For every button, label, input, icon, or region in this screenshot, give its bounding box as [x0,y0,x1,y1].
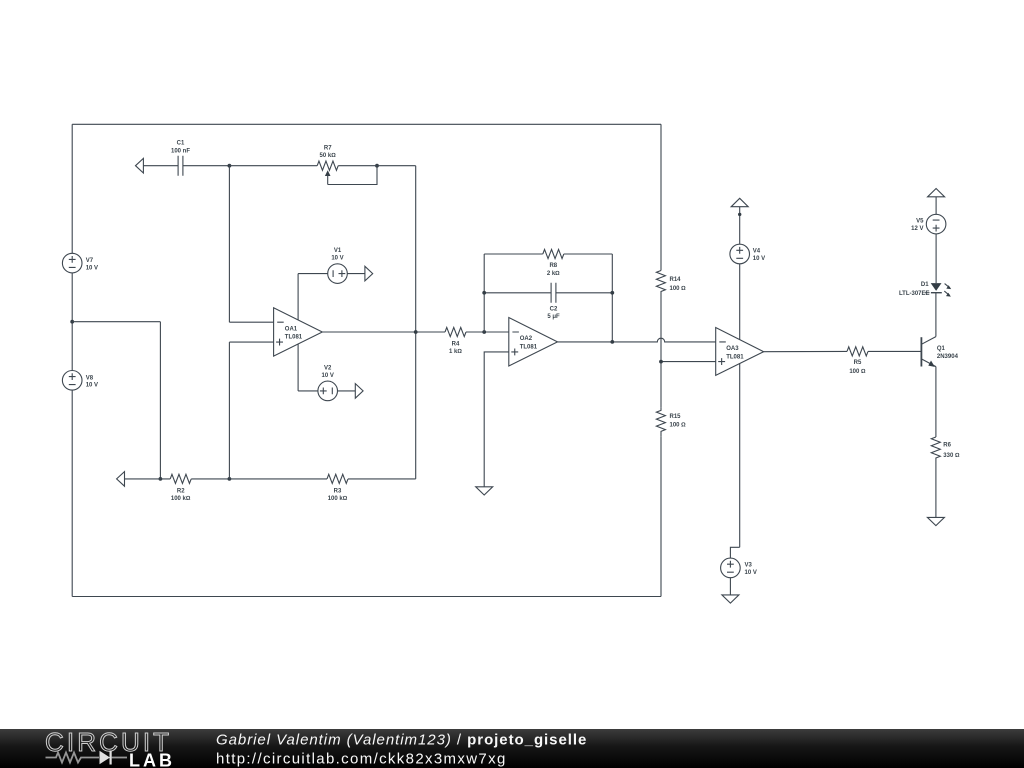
resistor R2 [170,474,191,483]
voltage source V8 [62,371,82,391]
wire non-inverting column to R2/R3 node [228,342,230,479]
voltage source V3 [721,558,741,578]
node junction R2/R3 [228,477,232,481]
svg-text:100 Ω: 100 Ω [849,369,866,375]
power symbol (V4) [731,198,748,206]
resistor R15 [656,408,665,436]
wire R3 to feedback column [348,478,416,480]
node junction OA1 output/feedback [414,330,418,334]
wire R7 to feedback corner [338,165,416,167]
wire OA1 output [322,331,445,333]
node junction C1/R7/inverting [228,164,232,168]
wire C2 left lead [484,292,551,294]
potentiometer R7 [317,161,338,170]
wire V4 to power [739,207,741,245]
svg-text:V1: V1 [334,248,342,254]
svg-text:V5: V5 [916,218,924,224]
wire V5 to power [935,197,937,215]
wire to V2 [298,390,318,392]
R7 wiper arrow [325,170,331,176]
svg-text:R15: R15 [670,414,682,420]
wire OA1 V- pin [297,344,299,391]
node dot below power V4 [738,213,741,216]
wire C1 to node [183,165,230,167]
node junction C2 left [482,291,486,295]
wire OA1 V+ pin [297,274,299,320]
wire R4 to OA2 inverting input [466,331,509,333]
svg-text:R14: R14 [670,277,682,283]
svg-text:TL081: TL081 [726,354,744,360]
svg-text:C2: C2 [550,306,558,312]
wire V3 to ground [729,578,731,595]
wire R8 to right column [564,253,613,255]
svg-text:V4: V4 [753,248,761,254]
wire junction to V7 [71,273,73,322]
svg-text:V7: V7 [86,258,94,264]
node junction R7 wiper [375,164,379,168]
svg-text:R8: R8 [549,263,557,269]
svg-text:V8: V8 [86,375,94,381]
wire inverting column upper [228,166,230,323]
svg-text:100 Ω: 100 Ω [670,286,687,292]
terminal arrow left (R2 row) [117,472,125,487]
wire arrow to R2 [125,478,171,480]
wire R7 wiper loop [328,166,377,185]
svg-text:Gabriel Valentim (Valentim123): Gabriel Valentim (Valentim123) / projeto… [216,731,587,748]
svg-text:R4: R4 [452,342,460,348]
svg-text:100 Ω: 100 Ω [670,422,687,428]
ground (V3) [722,595,739,603]
wire Q1 collector up [935,293,937,337]
resistor R3 [327,474,348,483]
ground (R6) [927,517,944,525]
svg-text:OA2: OA2 [520,336,533,342]
wire V1 to terminal [347,273,365,275]
svg-text:10 V: 10 V [86,266,98,272]
wire R6 to ground [935,461,937,517]
voltage source V1 [328,264,348,284]
wire to V1 [298,273,328,275]
wire to OA1 non-inverting input [229,341,273,343]
LED D1 [931,283,942,291]
svg-text:R6: R6 [943,442,951,448]
wire branch down to R2 [159,322,161,479]
svg-text:100 nF: 100 nF [171,149,190,155]
op-amp OA3 [716,328,764,376]
wire OA3 V+ pin to V4 [739,264,741,340]
svg-text:10 V: 10 V [86,383,98,389]
svg-text:5 μF: 5 μF [547,314,560,320]
svg-text:OA3: OA3 [726,346,739,352]
op-amp OA1 [274,308,323,356]
capacitor C1 [178,156,183,176]
svg-text:R7: R7 [324,146,332,152]
op-amp OA2 [509,318,558,367]
wire to OA3 non-inverting input [661,361,716,363]
wire R2 to node [191,478,229,480]
node junction V7/V8 [70,320,74,324]
voltage source V4 [730,244,750,264]
ground (OA2 non-inverting) [476,487,493,495]
wire feedback column vertical [415,166,417,479]
resistor R14 [656,271,665,295]
resistor R5 [847,347,868,356]
node junction R2 left [159,477,163,481]
logo resistor squiggle [46,753,100,763]
node junction OA2 output [610,340,614,344]
svg-text:OA1: OA1 [285,326,298,332]
svg-text:10 V: 10 V [331,256,343,262]
wire OA2 feedback left column [483,254,485,332]
wire C2 right lead [556,292,612,294]
wire OA2 non-inverting to ground [484,352,509,487]
svg-text:100 kΩ: 100 kΩ [328,496,348,502]
svg-text:http://circuitlab.com/ckk82x3m: http://circuitlab.com/ckk82x3mxw7xg [216,750,507,767]
wire D1 to V5 [935,234,937,283]
wire V7 to top rail [71,124,73,253]
FOOTER [0,727,1024,768]
wire outer left column below V8 [71,390,73,596]
node junction R14/R15/OA3 [659,360,663,364]
svg-text:10 V: 10 V [745,570,757,576]
svg-text:LTL-307EE: LTL-307EE [899,291,930,297]
wire V2 to terminal [338,390,356,392]
svg-text:1 kΩ: 1 kΩ [449,349,462,355]
voltage source V7 [62,253,82,273]
svg-text:R5: R5 [854,360,862,366]
capacitor C2 [551,283,556,303]
svg-text:100 kΩ: 100 kΩ [171,496,191,502]
svg-text:2 kΩ: 2 kΩ [547,271,560,277]
svg-text:10 V: 10 V [753,256,765,262]
wire outer bottom rail [72,596,661,598]
wire Q1 emitter down [935,367,937,437]
terminal arrow left (C1 row) [136,158,144,173]
svg-text:D1: D1 [921,282,929,288]
svg-text:Q1: Q1 [937,346,946,352]
wire right column middle [660,295,662,408]
wire jog to V3 [730,547,739,558]
wire R5 to Q1 base [868,350,921,352]
svg-text:2N3904: 2N3904 [937,354,959,360]
wire outer top rail [72,123,661,125]
node junction C2 right [610,291,614,295]
wire right column lower [660,436,662,596]
wire right column upper (to R14) [660,124,662,270]
svg-text:TL081: TL081 [285,335,303,341]
logo diode [100,751,111,764]
voltage source V5 [926,214,946,234]
wire node to R3 [229,478,327,480]
wire node to R7 [229,165,317,167]
wire to R8 [484,253,543,255]
terminal arrow right (V2) [355,384,363,399]
svg-text:10 V: 10 V [322,373,334,379]
resistor R8 [543,249,564,258]
node junction OA2 feedback [482,330,486,334]
resistor R6 [931,437,940,461]
wire to OA1 inverting input [229,321,273,323]
svg-text:330 Ω: 330 Ω [943,453,960,459]
svg-text:C1: C1 [177,141,185,147]
svg-text:50 kΩ: 50 kΩ [320,153,337,159]
svg-text:R2: R2 [177,488,185,494]
svg-text:V3: V3 [745,563,753,569]
wire arrow to C1 [143,165,178,167]
wire OA2 output with hop [558,338,716,342]
svg-text:V2: V2 [324,365,332,371]
terminal arrow right (V1) [365,266,373,281]
svg-text:12 V: 12 V [911,226,923,232]
wire OA3 output to R5 [764,350,847,352]
power symbol (V5) [928,189,945,197]
wire V8 to junction [71,322,73,371]
wire OA2 feedback right column [611,254,613,342]
voltage source V2 [318,381,338,401]
MAIN SCHEMATIC [62,124,686,596]
transistor Q1 [920,337,922,366]
resistor R4 [445,327,466,336]
wire branch right from V7/V8 node [72,321,160,323]
svg-text:TL081: TL081 [520,344,538,350]
wire OA3 V- pin down [739,363,741,547]
svg-text:LAB: LAB [129,750,175,768]
svg-text:R3: R3 [334,488,342,494]
